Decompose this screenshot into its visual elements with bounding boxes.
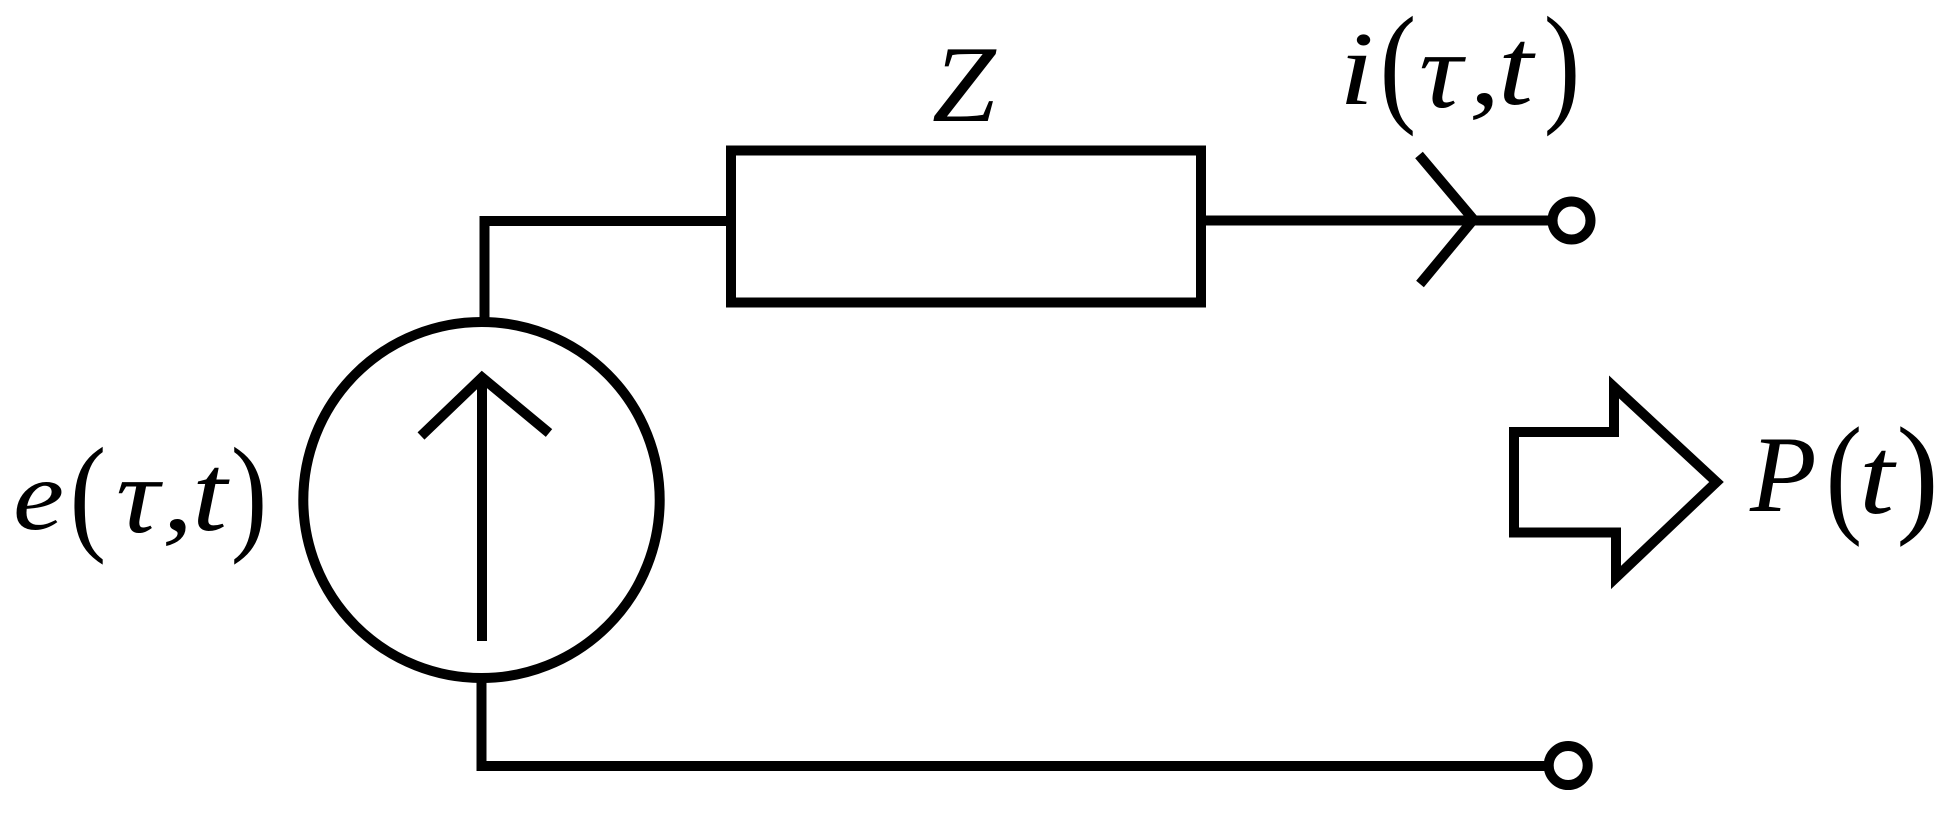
current source arrow head	[421, 378, 549, 437]
label e(τ,t)	[13, 423, 267, 567]
svg-text:(: (	[1826, 401, 1863, 548]
current direction arrowhead for i	[1419, 155, 1474, 284]
svg-text:Z: Z	[932, 24, 998, 145]
svg-text:i: i	[1339, 12, 1374, 128]
svg-text:t: t	[1498, 6, 1536, 128]
wire from source bottom to bottom output terminal	[482, 678, 1546, 766]
svg-text:,: ,	[162, 438, 194, 554]
label P(t)	[1749, 401, 1939, 548]
svg-text:(: (	[1380, 0, 1417, 137]
svg-text:τ: τ	[1419, 11, 1466, 131]
svg-text:(: (	[70, 423, 107, 567]
power flow block arrow for P(t)	[1514, 387, 1717, 578]
svg-text:,: ,	[1469, 12, 1501, 128]
svg-text:t: t	[1859, 415, 1897, 537]
svg-text:): )	[1544, 0, 1581, 137]
current source e(τ,t) circle	[303, 322, 659, 678]
impedance Z (box)	[731, 151, 1201, 303]
svg-text:τ: τ	[116, 436, 163, 556]
wire from Z to top output terminal	[1201, 216, 1553, 226]
svg-text:): )	[231, 423, 268, 567]
svg-text:t: t	[192, 432, 230, 554]
wire from source top to impedance Z	[485, 221, 727, 322]
current source arrow shaft	[477, 380, 487, 641]
svg-text:P: P	[1749, 414, 1817, 535]
terminal top (open circle)	[1553, 202, 1591, 240]
svg-text:e: e	[13, 441, 64, 551]
label i(τ,t)	[1339, 0, 1580, 137]
svg-text:): )	[1896, 401, 1939, 548]
terminal bottom (open circle)	[1549, 746, 1588, 785]
